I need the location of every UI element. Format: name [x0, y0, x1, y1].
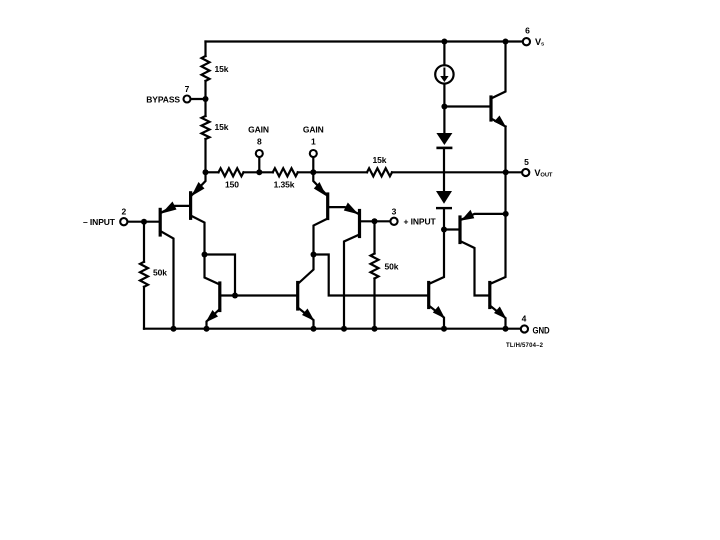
transistor Q9 emitter arrow — [494, 307, 507, 320]
wire node to diode D1 — [443, 107, 445, 134]
transistor Q3 emitter lead — [313, 172, 327, 195]
current source I1 arrow — [440, 68, 448, 83]
transistor Q6 collector lead — [298, 255, 314, 285]
terminal pin 4 GND — [521, 325, 528, 332]
transistor Q1 collector lead — [160, 231, 173, 329]
junction dots — [203, 96, 209, 102]
transistor Q5 emitter lead — [207, 309, 220, 329]
transistor Q7 base bar — [427, 283, 430, 308]
wire PNP base line — [444, 228, 460, 230]
svg-text:6: 6 — [525, 25, 530, 35]
transistor Q6 base bar — [296, 283, 299, 310]
transistor Q9 collector lead — [490, 214, 506, 284]
terminal pin 1 GAIN — [310, 150, 317, 157]
transistor Q2 base bar — [189, 193, 192, 219]
transistor Q3 emitter arrow — [314, 182, 327, 196]
svg-text:+ INPUT: + INPUT — [404, 217, 437, 227]
wire gain line left — [206, 171, 219, 173]
svg-text:4: 4 — [522, 313, 527, 323]
svg-text:150: 150 — [225, 180, 239, 190]
transistor Q1 emitter arrow — [162, 202, 177, 214]
wire ground rail — [144, 328, 521, 330]
transistor Q2 collector lead — [191, 216, 205, 255]
transistor Q7 collector lead — [429, 230, 444, 285]
resistor R4 1.35k — [273, 168, 298, 176]
wire bypass stub — [191, 98, 206, 100]
wire node to mirror base — [205, 255, 236, 296]
transistor Q7 emitter lead — [429, 306, 444, 329]
svg-text:15k: 15k — [215, 122, 229, 132]
wire mirror base line — [220, 294, 298, 296]
wire gain1 node to 15k feedback — [298, 171, 367, 173]
transistor Q8 emitter lead — [462, 214, 506, 220]
transistor Q5 emitter arrow — [206, 310, 219, 323]
wire diode chain bottom — [443, 209, 445, 230]
terminal pin 2 -INPUT — [120, 218, 127, 225]
wire Q1 base line — [127, 221, 160, 223]
transistor Q5 base bar — [218, 283, 221, 311]
resistor R2 15k (lower) — [202, 116, 210, 139]
wire gain8 terminal stub — [258, 157, 260, 172]
svg-text:GAIN: GAIN — [248, 125, 269, 135]
svg-text:50k: 50k — [385, 262, 399, 272]
svg-text:GND: GND — [533, 326, 550, 336]
transistor Q4 emitter arrow — [344, 203, 359, 215]
svg-text:– INPUT: – INPUT — [83, 217, 116, 227]
svg-text:5: 5 — [524, 157, 529, 167]
transistor Q10 collector lead — [491, 42, 506, 99]
resistor R3 150 — [219, 168, 244, 176]
diode D1 — [436, 133, 452, 145]
wire top rail Vs — [206, 40, 523, 42]
wire current source to node — [443, 84, 445, 107]
wire Q4 base line — [360, 220, 391, 222]
svg-text:15k: 15k — [215, 64, 229, 74]
wire Q5 collector from node — [205, 255, 220, 285]
resistor R5 15k feedback — [367, 168, 392, 176]
transistor Q9 emitter lead — [490, 306, 506, 329]
current source I1 circle — [435, 65, 453, 83]
transistor Q8 base bar — [458, 217, 461, 243]
transistor Q8 collector lead — [460, 241, 490, 296]
svg-text:3: 3 — [392, 206, 397, 216]
wire Vout vertical — [504, 127, 506, 214]
diode D2 — [436, 191, 452, 204]
transistor Q3 base bar — [326, 194, 329, 219]
transistor Q4 collector lead — [344, 235, 360, 329]
terminal pin 3 +INPUT — [390, 218, 397, 225]
svg-text:8: 8 — [257, 137, 262, 147]
transistor Q10 emitter arrow — [494, 116, 506, 128]
terminal pin 6 Vs — [523, 38, 530, 45]
svg-text:15k: 15k — [373, 155, 387, 165]
wire Q3 base to Q4 emitter — [328, 207, 358, 213]
wire Vs to current source — [443, 42, 445, 66]
wire node to gain NPN base — [314, 255, 429, 296]
transistor Q10 base bar — [489, 97, 492, 120]
wire left vertical above R1 — [204, 42, 206, 57]
transistor Q2 emitter lead — [192, 172, 206, 195]
wire 150 to gain8 node — [244, 171, 273, 173]
transistor Q3 collector lead — [314, 219, 328, 255]
svg-text:1.35k: 1.35k — [274, 180, 295, 190]
wire gain1 terminal stub — [312, 157, 314, 172]
svg-text:GAIN: GAIN — [303, 125, 324, 135]
terminal pin 5 Vout — [522, 169, 529, 176]
svg-text:7: 7 — [185, 84, 190, 94]
svg-text:2: 2 — [121, 207, 126, 217]
wire current source node to Q10 base — [444, 105, 491, 107]
wire Q2 base to Q1 emitter — [162, 206, 191, 213]
transistor Q6 emitter lead — [298, 308, 314, 329]
svg-text:50k: 50k — [153, 268, 167, 278]
transistor Q6 emitter arrow — [302, 309, 315, 322]
svg-text:BYPASS: BYPASS — [146, 94, 180, 104]
wire 15k to Vout node — [392, 171, 522, 173]
terminal pin 8 GAIN — [256, 150, 263, 157]
svg-text:VS: VS — [535, 37, 545, 48]
wire between 15k resistors — [204, 81, 206, 116]
transistor Q2 emitter arrow — [191, 182, 204, 196]
transistor Q10 emitter lead — [491, 119, 506, 127]
resistor R1 15k (upper) — [202, 56, 210, 81]
wire below R2 to gain line — [204, 139, 206, 172]
transistor Q8 emitter arrow — [461, 210, 474, 221]
resistor R7 50k right with leads — [373, 221, 375, 253]
svg-text:TL/H/5704–2: TL/H/5704–2 — [506, 343, 544, 349]
transistor Q9 base bar — [488, 283, 491, 308]
transistor Q1 base bar — [159, 209, 162, 235]
resistor R6 50k left with leads — [143, 222, 145, 262]
transistor Q7 emitter arrow — [433, 306, 445, 319]
svg-text:1: 1 — [311, 137, 316, 147]
wire diode chain middle — [443, 148, 445, 191]
transistor Q4 base bar — [358, 211, 361, 237]
terminal pin 7 BYPASS — [184, 96, 191, 103]
svg-text:VOUT: VOUT — [534, 168, 553, 179]
